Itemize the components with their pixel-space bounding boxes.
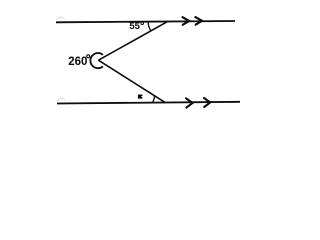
svg-text:260: 260 [68, 56, 87, 68]
top parallel line [56, 21, 235, 22]
faint artifact wisp above top line start [57, 17, 65, 20]
260-degree reflex angle arc at middle vertex [90, 53, 102, 68]
faint artifact wisp above bottom line start [57, 98, 65, 101]
upper transversal ray from vertex to top line [98, 22, 167, 61]
bottom line arrow chevron 2 [204, 98, 210, 107]
55-degree angle arc at top vertex [148, 22, 151, 31]
bottom line arrow chevron 1 [186, 98, 193, 107]
z angle arc at bottom vertex [152, 95, 154, 102]
bottom parallel line [57, 102, 240, 104]
svg-text:55: 55 [129, 21, 140, 32]
top line arrow chevron 2 [195, 17, 202, 25]
label z [138, 95, 143, 99]
top line arrow chevron 1 [183, 17, 190, 25]
lower transversal ray from vertex to bottom line [98, 60, 165, 102]
